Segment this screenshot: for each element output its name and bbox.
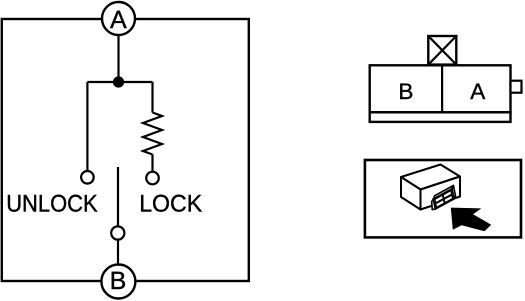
connector body (370, 65, 511, 112)
wire junction horizontal bar (87, 81, 152, 83)
module connector block front face (433, 189, 454, 209)
connector cavity divider (441, 65, 443, 112)
module callout box (365, 160, 521, 237)
UNLOCK contact (81, 171, 94, 184)
wire from common contact to terminal B (117, 240, 119, 265)
switch common contact (111, 226, 124, 239)
terminal A (102, 2, 135, 35)
junction (113, 76, 124, 87)
wire from terminal A to junction (117, 35, 119, 80)
callout arrow (451, 208, 491, 232)
connector flange (370, 112, 511, 122)
svg-text:A: A (110, 6, 127, 34)
svg-text:B: B (398, 79, 413, 104)
svg-text:A: A (470, 79, 485, 104)
svg-text:LOCK: LOCK (139, 191, 202, 218)
svg-text:UNLOCK: UNLOCK (6, 191, 98, 218)
module body left face (401, 177, 421, 210)
connector side lock tab (511, 81, 522, 93)
svg-text:B: B (110, 267, 127, 295)
connector keying tab with X (428, 36, 456, 65)
wire from resistor to LOCK contact (151, 155, 153, 172)
switch wiper lever (117, 167, 119, 226)
LOCK contact (146, 172, 159, 185)
module connector block right end face (452, 186, 456, 199)
switch enclosure box (2, 19, 249, 281)
module connector block pin slots (435, 195, 444, 203)
wire from junction to resistor (151, 82, 153, 113)
terminal B (101, 265, 135, 299)
module connector block top face (433, 186, 453, 200)
wire to UNLOCK contact (86, 82, 88, 170)
module body right face (421, 177, 461, 210)
module body top face (401, 165, 460, 190)
module connector block left end face (432, 199, 436, 210)
resistor (143, 113, 162, 155)
